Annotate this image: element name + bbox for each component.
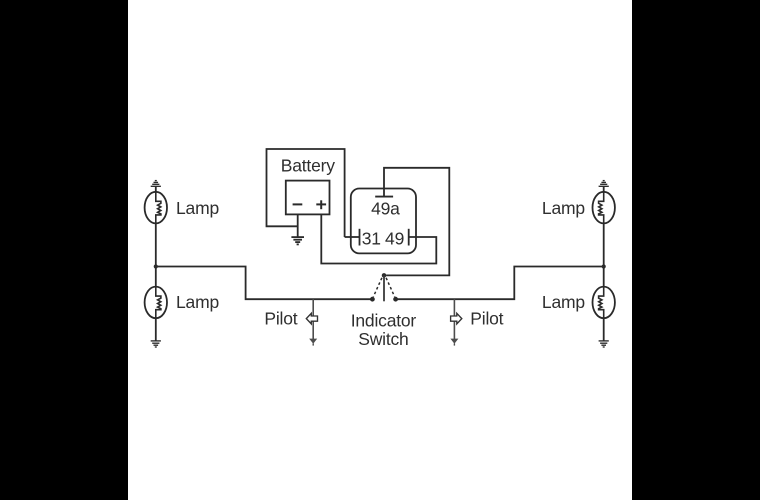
switch S1 throw right (dashed) bbox=[386, 278, 395, 297]
wire: lamp L1 to lamp L2 bbox=[155, 223, 157, 286]
wire: ground G3 to lamp L3 bbox=[603, 186, 605, 192]
arrow: right pilot direction (hollow, pointing right) bbox=[451, 313, 462, 324]
svg-text:Lamp: Lamp bbox=[542, 292, 585, 312]
battery cell (inner box) bbox=[286, 181, 330, 215]
svg-text:Lamp: Lamp bbox=[176, 198, 219, 218]
lamp L2 (bottom left) bbox=[145, 287, 167, 319]
node: left lamps junction bbox=[154, 264, 158, 268]
wire: lamp L3 to lamp L4 bbox=[603, 223, 605, 286]
arrowhead: left pilot down bbox=[309, 339, 317, 346]
svg-text:49a: 49a bbox=[371, 199, 400, 219]
wire: relay 49a to switch pivot bbox=[384, 168, 449, 276]
ground G3 (above top-right lamp) bbox=[599, 181, 609, 187]
arrow: left pilot direction (hollow, pointing left) bbox=[306, 313, 317, 324]
svg-text:49: 49 bbox=[385, 229, 404, 249]
svg-text:Pilot: Pilot bbox=[470, 308, 503, 328]
wire: ground G1 to lamp L1 bbox=[155, 186, 157, 192]
wire: left junction to switch left contact bbox=[156, 267, 373, 300]
wire: lamp L2 to ground G2 bbox=[155, 318, 157, 341]
ground G4 (below bottom-right lamp) bbox=[599, 341, 609, 347]
relay terminal bar 49 bbox=[408, 229, 410, 246]
wire: battery - to ground G5 bbox=[297, 215, 299, 238]
switch S1 left contact bbox=[370, 297, 375, 302]
wire: left pilot feed bbox=[312, 299, 314, 339]
relay terminal bar 31 bbox=[359, 229, 361, 246]
svg-text:Lamp: Lamp bbox=[542, 198, 585, 218]
lamp L3 (top right) bbox=[593, 192, 615, 224]
ground G1 (above top-left lamp) bbox=[151, 181, 161, 187]
wire: lamp L4 to ground G4 bbox=[603, 318, 605, 341]
svg-text:Indicator: Indicator bbox=[351, 310, 417, 330]
wire: battery + to relay terminal 49 bbox=[321, 214, 436, 263]
wire: right pilot feed bbox=[453, 299, 455, 339]
ground G5 (battery) bbox=[291, 237, 304, 244]
battery B1 case outline bbox=[267, 149, 345, 237]
switch S1 throw left (dashed) bbox=[373, 278, 382, 297]
wire: battery case to relay terminal 31 bbox=[345, 236, 360, 238]
relay terminal bar 49a bbox=[375, 196, 393, 198]
lamp L1 (top left) bbox=[145, 192, 167, 224]
switch S1 right contact bbox=[393, 297, 398, 302]
switch S1 lever bbox=[383, 275, 385, 301]
svg-text:Switch: Switch bbox=[358, 329, 408, 349]
svg-text:31: 31 bbox=[362, 229, 381, 249]
svg-text:Lamp: Lamp bbox=[176, 292, 219, 312]
battery positive terminal (+) bbox=[316, 200, 326, 209]
svg-text:Pilot: Pilot bbox=[264, 308, 297, 328]
ground G2 (below bottom-left lamp) bbox=[151, 341, 161, 347]
relay U1 (flasher unit) body bbox=[351, 189, 416, 254]
switch S1 pivot node bbox=[382, 273, 387, 278]
battery negative terminal (-) bbox=[293, 203, 303, 205]
node: right lamps junction bbox=[602, 264, 606, 268]
label Indicator Switch bbox=[351, 310, 417, 348]
wire: right junction to switch right contact bbox=[396, 267, 604, 300]
svg-text:Battery: Battery bbox=[281, 155, 335, 175]
arrowhead: right pilot down bbox=[450, 339, 458, 346]
lamp L4 (bottom right) bbox=[593, 287, 615, 319]
